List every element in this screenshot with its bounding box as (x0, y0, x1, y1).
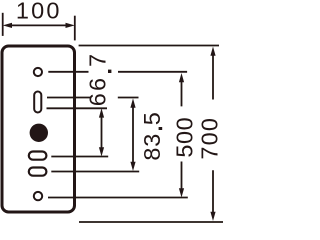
svg-text:100: 100 (16, 0, 62, 24)
svg-text:700: 700 (197, 117, 223, 160)
svg-text:66 7: 66 7 (85, 52, 111, 107)
svg-text:500: 500 (171, 117, 197, 158)
svg-text:83 5: 83 5 (139, 111, 165, 160)
